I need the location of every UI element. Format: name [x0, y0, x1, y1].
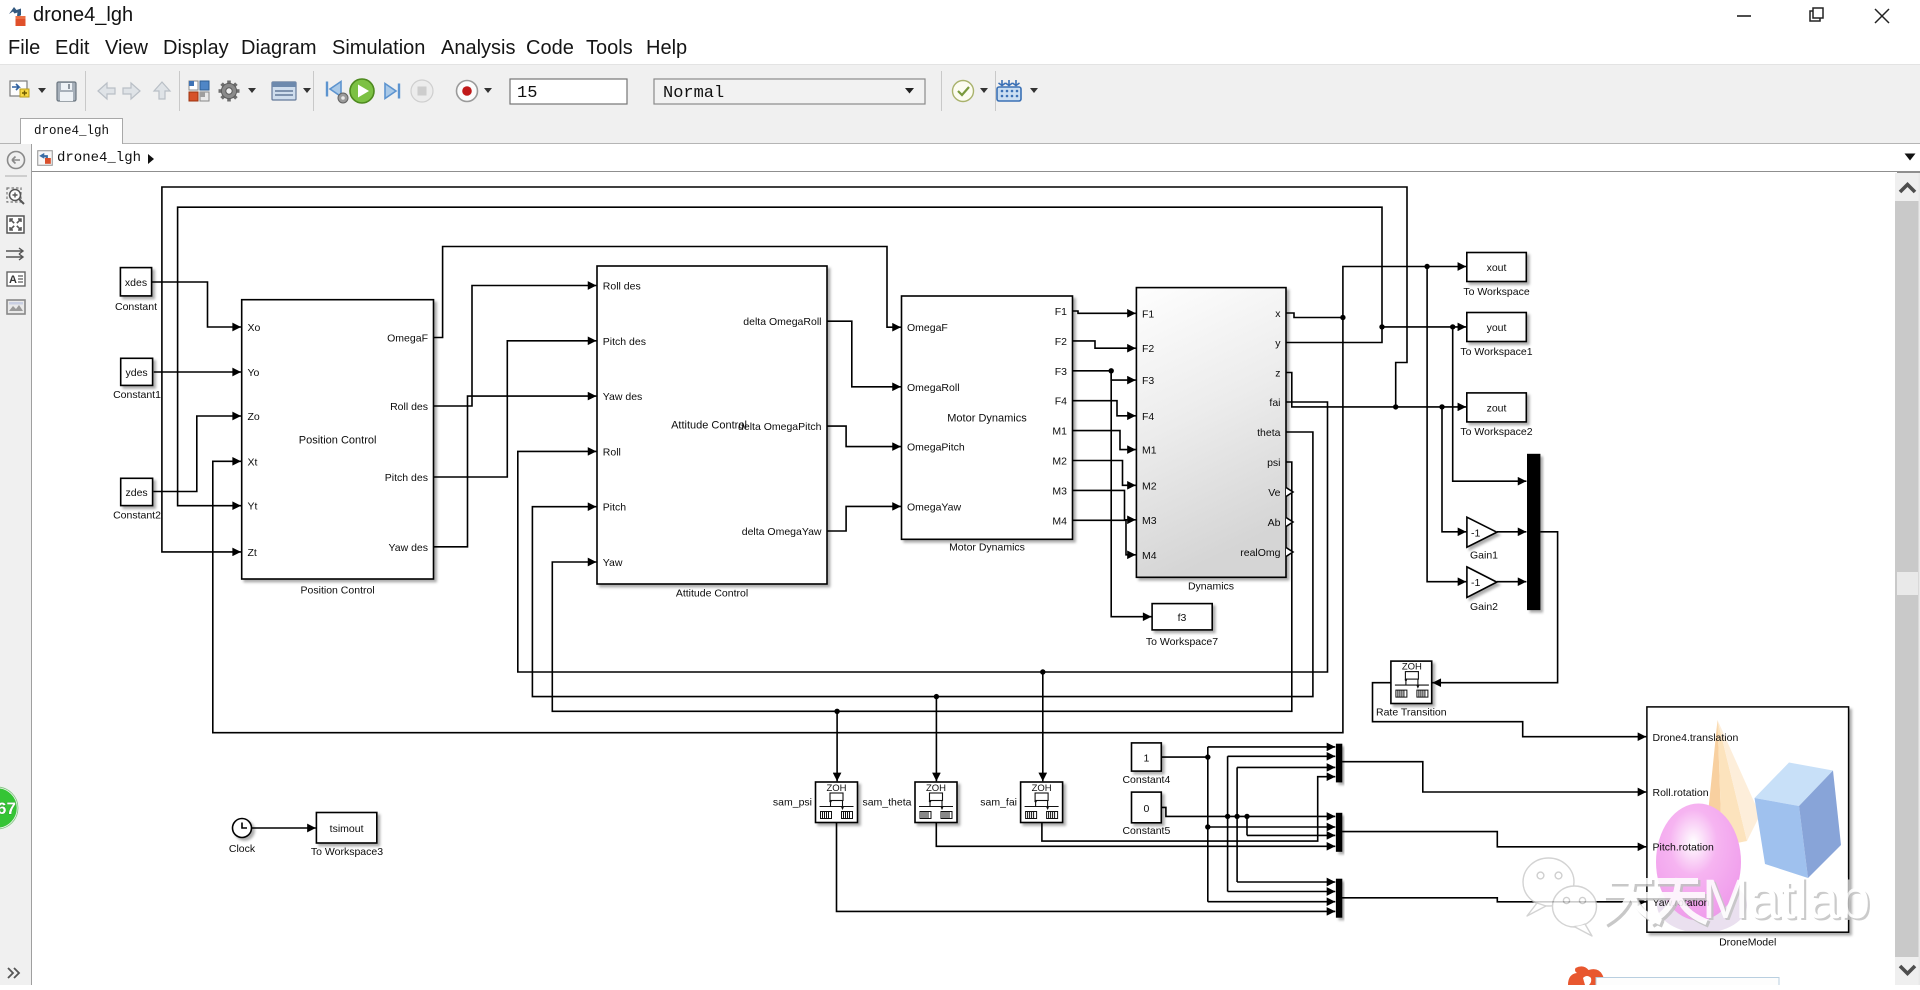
svg-text:Ab: Ab	[1268, 517, 1281, 529]
svg-text:zout: zout	[1487, 402, 1507, 414]
svg-text:Attitude Control: Attitude Control	[671, 420, 747, 432]
svg-text:Constant5: Constant5	[1122, 825, 1170, 837]
svg-text:M1: M1	[1052, 426, 1067, 438]
svg-text:fai: fai	[1269, 397, 1280, 409]
svg-text:psi: psi	[1267, 457, 1280, 469]
svg-text:Constant2: Constant2	[113, 510, 161, 522]
svg-text:M4: M4	[1052, 515, 1067, 527]
svg-text:Gain1: Gain1	[1470, 550, 1498, 562]
svg-text:Yo: Yo	[248, 367, 260, 379]
svg-text:M1: M1	[1142, 445, 1157, 457]
svg-text:sam_fai: sam_fai	[980, 797, 1017, 809]
svg-text:Position Control: Position Control	[301, 584, 375, 596]
svg-text:OmegaYaw: OmegaYaw	[907, 501, 961, 513]
svg-text:OmegaF: OmegaF	[907, 322, 948, 334]
svg-text:theta: theta	[1257, 427, 1281, 439]
svg-text:To Workspace: To Workspace	[1463, 286, 1529, 298]
svg-text:To Workspace2: To Workspace2	[1460, 426, 1532, 438]
svg-text:Pitch des: Pitch des	[603, 336, 646, 348]
svg-text:F1: F1	[1055, 306, 1067, 318]
svg-text:Matlab: Matlab	[1702, 867, 1870, 930]
svg-text:1: 1	[1143, 753, 1149, 765]
svg-text:Yaw: Yaw	[603, 557, 623, 569]
svg-text:-1: -1	[1471, 577, 1480, 589]
svg-text:Motor Dynamics: Motor Dynamics	[947, 413, 1027, 425]
svg-text:A: A	[9, 274, 17, 286]
svg-text:Attitude Control: Attitude Control	[676, 588, 748, 600]
svg-text:DroneModel: DroneModel	[1719, 936, 1776, 948]
svg-text:x: x	[1275, 308, 1281, 320]
svg-text:15: 15	[517, 84, 537, 103]
svg-text:xdes: xdes	[125, 277, 147, 289]
svg-text:-1: -1	[1471, 527, 1480, 539]
svg-text:F3: F3	[1142, 375, 1154, 387]
svg-text:Gain2: Gain2	[1470, 601, 1498, 613]
svg-text:realOmg: realOmg	[1240, 547, 1280, 559]
svg-text:Dynamics: Dynamics	[1188, 581, 1234, 593]
svg-text:To Workspace1: To Workspace1	[1460, 346, 1532, 358]
svg-text:OmegaF: OmegaF	[387, 333, 428, 345]
svg-text:OmegaPitch: OmegaPitch	[907, 442, 965, 454]
svg-text:y: y	[1275, 338, 1281, 350]
svg-text:Roll des: Roll des	[603, 281, 641, 293]
svg-text:sam_psi: sam_psi	[773, 797, 812, 809]
svg-text:M3: M3	[1142, 515, 1157, 527]
svg-text:delta OmegaPitch: delta OmegaPitch	[738, 421, 822, 433]
svg-text:F3: F3	[1055, 366, 1067, 378]
svg-text:To Workspace7: To Workspace7	[1146, 636, 1218, 648]
svg-text:zdes: zdes	[126, 487, 148, 499]
svg-text:Zt: Zt	[248, 547, 257, 559]
svg-text:Roll.rotation: Roll.rotation	[1653, 787, 1709, 799]
svg-text:delta OmegaRoll: delta OmegaRoll	[743, 316, 821, 328]
svg-text:F2: F2	[1142, 343, 1154, 355]
svg-text:Pitch.rotation: Pitch.rotation	[1653, 842, 1714, 854]
svg-text:Roll: Roll	[603, 446, 621, 458]
svg-text:Constant1: Constant1	[113, 389, 161, 401]
svg-text:Zo: Zo	[248, 411, 260, 423]
svg-text:Yt: Yt	[248, 501, 258, 513]
svg-text:xout: xout	[1487, 262, 1507, 274]
svg-text:Yaw des: Yaw des	[603, 391, 643, 403]
svg-text:sam_theta: sam_theta	[862, 797, 911, 809]
svg-text:Rate Transition: Rate Transition	[1376, 706, 1447, 718]
svg-text:delta OmegaYaw: delta OmegaYaw	[742, 526, 822, 538]
svg-text:F1: F1	[1142, 308, 1154, 320]
svg-text:To Workspace3: To Workspace3	[311, 846, 383, 858]
svg-text:M2: M2	[1052, 456, 1067, 468]
svg-text:0: 0	[1143, 803, 1149, 815]
svg-text:F2: F2	[1055, 336, 1067, 348]
svg-text:Roll des: Roll des	[390, 401, 428, 413]
svg-text:Pitch des: Pitch des	[385, 472, 428, 484]
svg-text:Yaw des: Yaw des	[389, 542, 429, 554]
svg-text:Ve: Ve	[1268, 487, 1280, 499]
svg-text:Motor Dynamics: Motor Dynamics	[949, 541, 1025, 553]
svg-text:OmegaRoll: OmegaRoll	[907, 382, 960, 394]
svg-text:Drone4.translation: Drone4.translation	[1653, 732, 1739, 744]
svg-text:67: 67	[0, 799, 16, 818]
svg-text:M2: M2	[1142, 480, 1157, 492]
svg-text:Constant4: Constant4	[1122, 774, 1170, 786]
svg-text:Position Control: Position Control	[299, 435, 377, 447]
svg-text:z: z	[1275, 368, 1280, 380]
svg-text:yout: yout	[1487, 322, 1507, 334]
svg-text:Normal: Normal	[663, 84, 724, 103]
svg-text:Xt: Xt	[248, 456, 258, 468]
svg-text:Xo: Xo	[248, 322, 261, 334]
svg-text:tsimout: tsimout	[330, 823, 364, 835]
svg-text:F4: F4	[1142, 411, 1154, 423]
svg-text:Constant: Constant	[115, 301, 157, 313]
svg-text:M3: M3	[1052, 485, 1067, 497]
svg-text:Clock: Clock	[229, 843, 256, 855]
svg-text:f3: f3	[1178, 612, 1187, 624]
svg-text:Pitch: Pitch	[603, 502, 627, 514]
svg-text:F4: F4	[1055, 396, 1067, 408]
svg-text:ydes: ydes	[126, 367, 148, 379]
svg-text:M4: M4	[1142, 550, 1157, 562]
